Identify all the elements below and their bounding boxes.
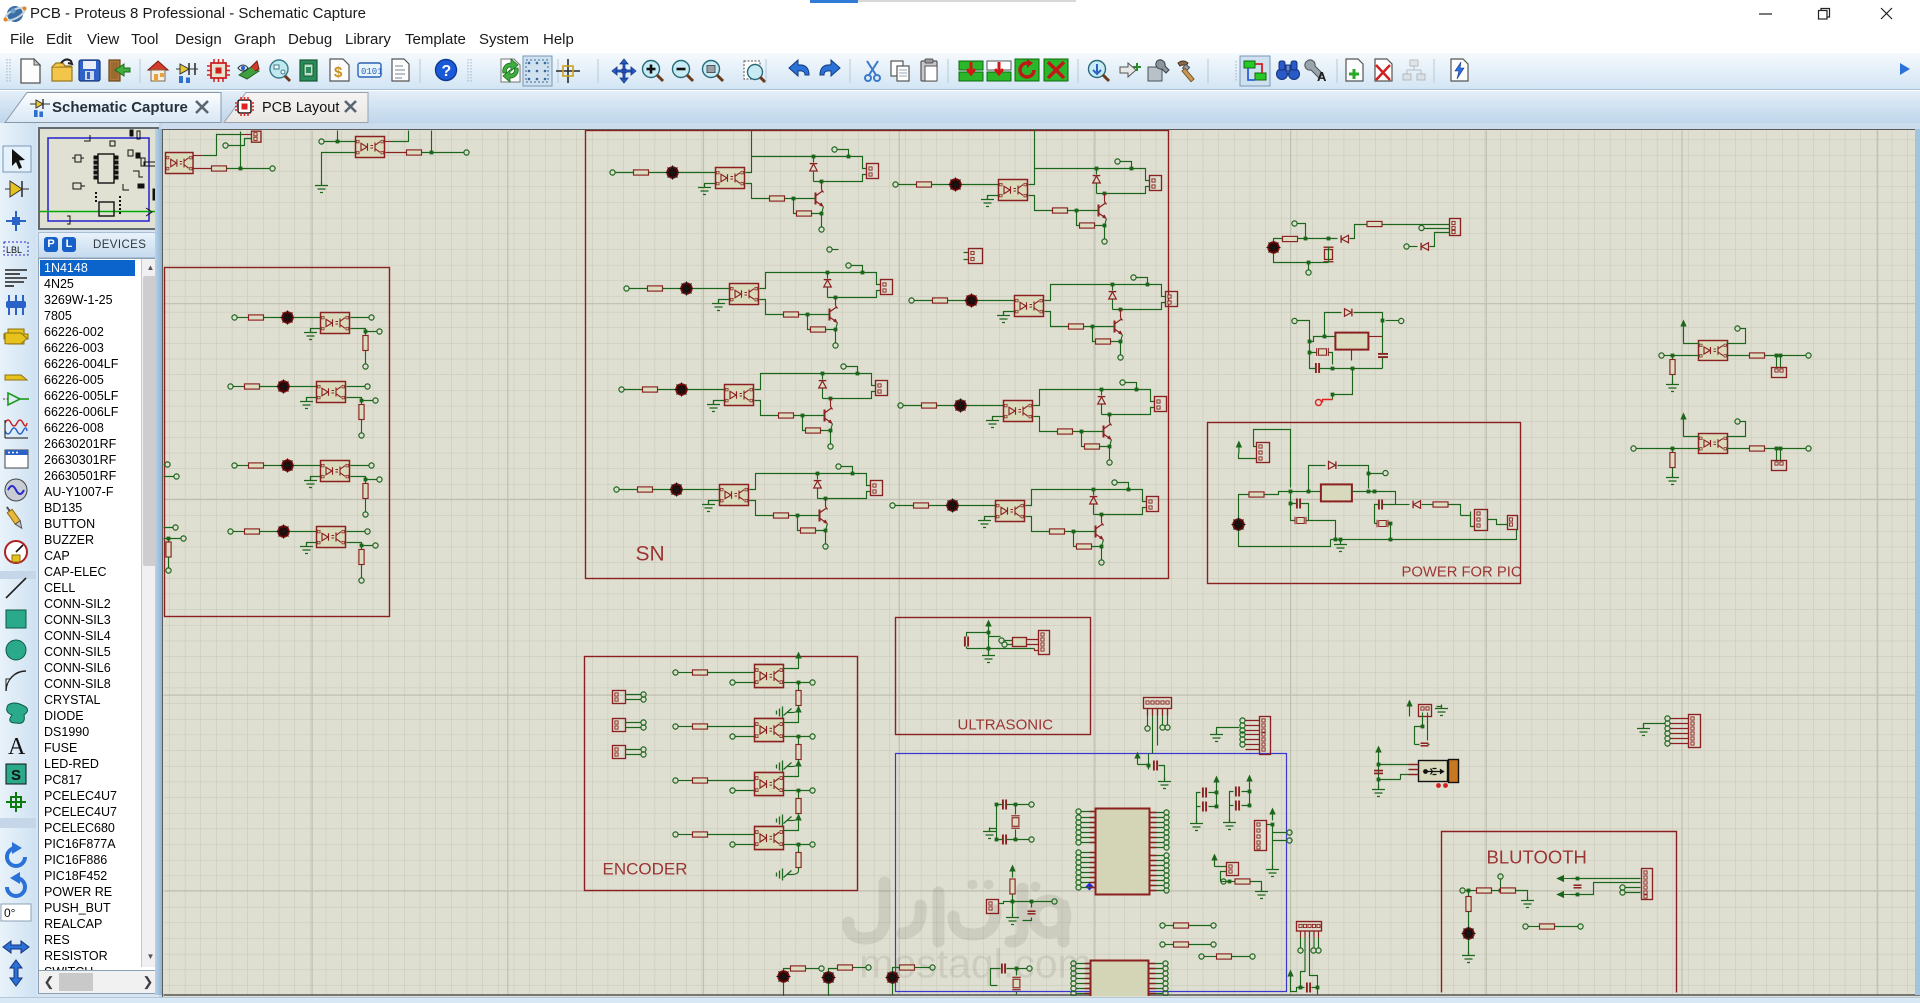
decoupling cap cluster — [991, 964, 1033, 986]
LED 2 — [822, 971, 836, 985]
terminal — [1292, 221, 1297, 226]
terminals — [999, 638, 1004, 643]
USB body — [1419, 761, 1448, 782]
svg-text:ULTRASONIC: ULTRASONIC — [958, 717, 1054, 734]
opto channel group1 row1 — [232, 311, 382, 370]
junction — [1307, 490, 1311, 494]
SN channel L3 — [619, 364, 888, 449]
junction — [1307, 261, 1311, 265]
svg-text:LBL: LBL — [6, 245, 22, 255]
LED 1 — [777, 970, 791, 984]
rx arrow — [1558, 876, 1571, 882]
SN channel R2 — [909, 275, 1178, 360]
terminals — [1620, 885, 1625, 890]
wires — [999, 895, 1053, 921]
cap left — [1316, 363, 1319, 373]
wires to connector — [1027, 640, 1039, 651]
connector 2pin far right — [1508, 516, 1518, 530]
junction — [987, 631, 991, 635]
frame box ULTRASONIC — [896, 618, 1091, 735]
resistor — [1283, 236, 1298, 241]
progress strip top right — [810, 0, 858, 3]
svg-text:$: $ — [334, 64, 343, 81]
hammer — [1178, 61, 1194, 82]
home — [148, 61, 168, 81]
grid minor — [164, 131, 1920, 997]
frame box POWER FOR PIC — [1208, 423, 1521, 584]
output wire — [386, 152, 407, 154]
output wire — [1369, 336, 1383, 338]
resistor — [1013, 638, 1027, 647]
connector 3pin — [1257, 443, 1270, 463]
subcircuit — [4, 329, 28, 344]
SN channel L4 — [614, 464, 883, 549]
encoder connector 2 — [613, 719, 647, 732]
junctions — [1576, 877, 1580, 881]
wire top — [967, 633, 1001, 649]
wire — [1350, 225, 1367, 239]
wire — [168, 557, 170, 568]
wire LED — [1239, 495, 1249, 519]
mirror y — [10, 960, 22, 986]
design explorer — [300, 60, 317, 81]
output wire — [1352, 492, 1396, 505]
bypass diode — [1325, 313, 1342, 337]
diode 2 — [1404, 244, 1409, 249]
watermark — [848, 880, 1091, 987]
diode right — [1396, 504, 1410, 506]
wires — [990, 805, 1029, 840]
small connector above — [1419, 705, 1432, 717]
ground — [982, 652, 995, 663]
ground — [1334, 541, 1347, 552]
wire — [1637, 448, 1673, 450]
frame box ENCODER — [585, 657, 858, 891]
text script — [5, 270, 27, 286]
LED indicator — [1267, 241, 1281, 255]
capacitor — [1028, 911, 1036, 914]
current probe — [5, 541, 27, 563]
opto channel group1 row4 — [228, 525, 378, 584]
wire to connectors — [1449, 505, 1475, 527]
resistor — [1367, 221, 1382, 226]
separator — [0, 571, 36, 579]
terminal — [270, 166, 275, 171]
wire riser R1 — [1034, 131, 1036, 169]
wire to terminal — [227, 132, 270, 169]
svg-text:0°: 0° — [4, 906, 16, 920]
svg-text:Schematic Capture: Schematic Capture — [52, 99, 188, 116]
left pins — [1409, 765, 1419, 775]
junction — [167, 537, 171, 541]
power flag — [1236, 441, 1242, 454]
canvas bottom edge — [164, 994, 1920, 996]
terminal — [173, 525, 178, 530]
2D line — [6, 578, 26, 598]
copy — [891, 61, 909, 81]
connector 3pin right — [1475, 510, 1488, 531]
connector fragment SN — [964, 249, 983, 264]
2D box — [6, 610, 26, 628]
voltage probe — [4, 505, 24, 530]
2D circle — [6, 640, 26, 660]
zoom in — [643, 61, 664, 82]
tab2 icon — [235, 97, 254, 116]
right opto channel 2 — [1666, 413, 1811, 485]
electrical check — [1451, 59, 1468, 81]
LED indicator — [1462, 927, 1476, 941]
output terminal — [1399, 318, 1404, 323]
3d viewer — [238, 61, 259, 79]
junctions — [1304, 237, 1308, 241]
blue marker — [1086, 883, 1094, 891]
terminal — [1419, 225, 1424, 230]
right opto channel 1 — [1666, 320, 1811, 392]
resistor left — [1249, 492, 1264, 497]
wire — [1298, 238, 1338, 240]
BOM — [330, 59, 349, 81]
junction — [1308, 340, 1312, 344]
input terminal — [1292, 318, 1297, 323]
wire label — [4, 242, 28, 255]
selection box PIC (blue) — [896, 754, 1287, 992]
connector 6pin — [1642, 869, 1653, 900]
wire to regulator — [1291, 491, 1321, 493]
wire fragment SN — [833, 249, 839, 251]
gerber view — [270, 60, 290, 81]
svg-text:BLUTOOTH: BLUTOOTH — [1487, 847, 1587, 868]
generator — [5, 479, 27, 501]
bottom rail — [1333, 368, 1383, 370]
resistor — [166, 542, 171, 557]
wire top — [194, 155, 203, 157]
svg-text:SN: SN — [636, 543, 665, 566]
wire — [325, 131, 356, 142]
encoder connector 1 — [613, 691, 647, 704]
wire — [989, 641, 1035, 649]
bus — [6, 301, 26, 308]
wire — [1425, 228, 1450, 230]
opto channel group1 row3 — [232, 459, 382, 518]
2D symbol — [6, 764, 26, 784]
wire — [164, 465, 174, 477]
terminal — [165, 462, 170, 467]
LED 3 — [886, 971, 900, 985]
block move — [987, 61, 1011, 81]
rotate cw — [7, 848, 25, 866]
capacitor — [1307, 983, 1310, 993]
junctions — [995, 803, 999, 807]
svg-text:PCB Layout: PCB Layout — [262, 100, 339, 116]
wire — [1665, 355, 1673, 357]
right edge marker — [1900, 63, 1910, 75]
long wires — [1301, 938, 1318, 988]
selection tool (active) — [3, 146, 31, 172]
save — [79, 60, 100, 81]
junction — [239, 167, 243, 171]
capacitor — [1421, 743, 1429, 746]
terminal — [5, 333, 27, 344]
svg-text:?: ? — [442, 63, 452, 80]
frame box SN — [586, 131, 1169, 579]
crystal — [1011, 816, 1020, 828]
capacitor — [1574, 885, 1582, 888]
regulator — [1335, 333, 1368, 350]
regulator — [1321, 484, 1352, 501]
ground — [983, 828, 996, 839]
help — [436, 60, 457, 81]
tx arrow — [1558, 892, 1571, 898]
wire colours (pressed) — [1240, 56, 1270, 86]
connector 2pin — [987, 900, 999, 914]
wire — [229, 139, 252, 146]
terminal — [174, 474, 179, 479]
connector top-left — [252, 131, 262, 142]
diode loop — [1309, 466, 1326, 492]
diode — [1341, 235, 1348, 243]
encoder channel 2 — [673, 706, 815, 773]
encoder channel 3 — [673, 760, 815, 827]
device pin — [8, 393, 20, 405]
exit door — [109, 60, 130, 81]
input terminal ch1 — [1659, 353, 1664, 358]
resistor 1 — [1477, 888, 1492, 893]
ground — [315, 182, 328, 193]
mirror x — [3, 941, 29, 953]
app icon — [3, 5, 26, 23]
svg-text:ENCODER: ENCODER — [603, 860, 688, 879]
grid major lines — [164, 131, 1920, 997]
resistor — [407, 150, 422, 155]
connector 5pin — [1297, 922, 1322, 932]
encoder connector 3 — [613, 746, 647, 759]
ground — [1462, 952, 1475, 963]
SN channel R4 — [890, 480, 1159, 565]
terminal — [464, 150, 469, 155]
optocoupler U-frag — [166, 153, 194, 174]
junction — [1289, 490, 1293, 494]
svg-text:POWER FOR PIC: POWER FOR PIC — [1402, 565, 1522, 581]
goto part — [1120, 63, 1141, 77]
collector stub — [385, 141, 392, 143]
2D marker — [6, 792, 26, 812]
zoom region — [703, 61, 724, 82]
junction — [430, 151, 434, 155]
resistor — [212, 166, 227, 171]
SN channel L2 — [624, 263, 893, 348]
resistor — [1010, 879, 1015, 894]
window buttons — [1759, 8, 1892, 19]
terminal — [166, 568, 171, 573]
svg-text:A: A — [1317, 69, 1327, 84]
pin stubs — [1301, 932, 1319, 938]
cap 2 — [1003, 835, 1006, 845]
svg-text:0101: 0101 — [361, 67, 383, 77]
bottom wire — [1274, 247, 1329, 263]
tab1 icon — [30, 99, 50, 117]
caps right pair — [1379, 500, 1382, 510]
notes — [392, 59, 409, 81]
block delete — [1044, 59, 1068, 81]
block rotate — [1015, 59, 1039, 81]
resistor right — [1433, 502, 1448, 507]
input terminal — [1460, 888, 1465, 893]
LED indicator — [1232, 518, 1246, 532]
frame box left group — [165, 268, 390, 617]
pan — [612, 59, 636, 83]
sheet tree (disabled) — [1403, 60, 1425, 80]
caps left pair — [1297, 499, 1300, 509]
zoom search — [1089, 61, 1110, 82]
refresh — [501, 59, 520, 82]
tape recorder — [5, 450, 28, 468]
angle box — [1, 904, 31, 921]
capacitor — [965, 637, 968, 647]
crystal — [1324, 247, 1334, 262]
binoculars — [1277, 61, 1300, 80]
link: terminal resistor terminal — [1523, 924, 1528, 929]
graph mode — [5, 420, 28, 438]
regulator ground pin — [1351, 350, 1353, 361]
wires to connector — [1571, 879, 1641, 895]
terminal — [223, 143, 228, 148]
cap 1 — [1003, 800, 1006, 810]
ground lead — [322, 153, 356, 184]
wire bottom — [194, 168, 212, 170]
2D arc — [6, 671, 26, 691]
separator — [0, 818, 36, 828]
power flag — [1287, 970, 1293, 983]
power flag — [1009, 865, 1015, 878]
junction — [1467, 889, 1471, 893]
new sheet — [1346, 59, 1363, 81]
resistor 2 — [1501, 888, 1516, 893]
opto channel group1 row2 — [228, 380, 378, 439]
paste — [921, 59, 937, 81]
wire — [1265, 492, 1291, 495]
terminal fragment SN — [827, 247, 832, 252]
power flag — [985, 620, 991, 633]
terminals — [1029, 802, 1034, 807]
bottom rail — [1239, 530, 1517, 547]
redo — [820, 60, 840, 76]
crystal left — [1317, 348, 1329, 356]
open — [52, 59, 72, 81]
cut — [865, 61, 880, 81]
SN channel R3 — [898, 380, 1167, 465]
wire — [164, 528, 181, 543]
encoder channel 4 — [673, 814, 815, 881]
delete sheet — [1375, 59, 1392, 81]
wire top — [1274, 239, 1283, 242]
optocoupler — [356, 137, 385, 158]
mid junction — [1499, 889, 1503, 893]
input terminal — [319, 139, 324, 144]
SN channel R1 — [893, 159, 1162, 244]
wire — [422, 131, 464, 153]
cap right — [1378, 354, 1388, 357]
zoom full — [744, 61, 765, 82]
origin marker — [1323, 400, 1333, 403]
junction dot mode — [6, 211, 26, 231]
svg-text:A: A — [8, 734, 26, 760]
component mode — [10, 181, 22, 197]
terminal — [1052, 899, 1057, 904]
terminal — [1306, 270, 1311, 275]
terminal above — [1498, 874, 1503, 879]
encoder channel 1 — [673, 652, 815, 719]
assembly — [358, 63, 383, 77]
block copy — [959, 61, 983, 81]
terminal — [181, 536, 186, 541]
wire to connector — [1383, 224, 1450, 226]
connector 3pin — [1450, 219, 1461, 236]
terminal — [1383, 471, 1388, 476]
ground — [1521, 897, 1534, 908]
origin — [556, 59, 580, 83]
wire — [1298, 321, 1336, 342]
input terminal ch2 — [1631, 446, 1636, 451]
wire top loop — [1254, 430, 1291, 488]
junction — [1381, 319, 1385, 323]
pcb layout icon — [207, 59, 230, 82]
divider resistor — [1468, 891, 1470, 897]
wire between connectors — [1488, 520, 1508, 525]
new — [21, 59, 40, 83]
rotate ccw — [7, 878, 25, 896]
wires to terminals — [1301, 938, 1319, 948]
wire riser L1 — [751, 131, 753, 157]
svg-text:S: S — [11, 767, 21, 784]
ground — [1006, 914, 1019, 925]
SN channel L1 — [610, 147, 879, 232]
schematic capture icon — [176, 63, 198, 83]
wrench A — [1305, 60, 1327, 84]
grid (pressed) — [523, 56, 552, 86]
cap + pwr + gnd left — [1375, 746, 1381, 759]
zoom out — [673, 61, 694, 82]
undo — [789, 60, 809, 76]
junction — [987, 647, 991, 651]
connector 4pin — [1039, 631, 1050, 655]
wire — [1298, 224, 1306, 237]
junction — [336, 140, 340, 144]
wire — [1239, 454, 1257, 459]
toolbox chip — [1148, 60, 1169, 81]
frame box BLUTOOTH — [1442, 832, 1677, 993]
2D closed path — [7, 703, 28, 723]
